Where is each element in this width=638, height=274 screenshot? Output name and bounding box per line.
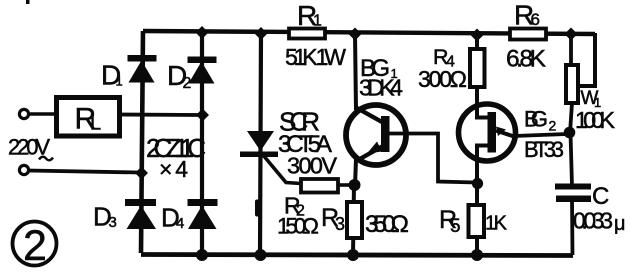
transistor BG1	[346, 105, 406, 165]
resistor R3	[347, 202, 362, 238]
wire bottom rail	[141, 255, 573, 256]
wire terminal to RL	[28, 112, 58, 116]
diode D3	[125, 199, 156, 229]
node dot W1 C emitter	[564, 127, 576, 139]
diode D1	[128, 55, 157, 83]
svg-text:4: 4	[176, 215, 184, 232]
node dot R2 R3 emitter	[349, 179, 361, 191]
svg-text:3: 3	[335, 214, 345, 234]
svg-text:2: 2	[549, 118, 557, 134]
wire BG2 emitter to node	[514, 134, 567, 136]
svg-text:300Ω: 300Ω	[418, 66, 467, 92]
wire BG1 emitter to node	[355, 159, 356, 186]
wire SCR column	[260, 33, 261, 255]
terminal input top	[19, 109, 28, 118]
node dot bottom D4	[196, 249, 208, 261]
wire top rail	[143, 31, 595, 34]
wire BG2 base1 to R5	[475, 160, 479, 255]
wire BG1 collector	[355, 34, 356, 110]
resistor R1	[289, 29, 325, 39]
node dot bottom SCR	[255, 249, 267, 261]
svg-text:μ: μ	[614, 213, 626, 235]
svg-text:350Ω: 350Ω	[365, 211, 409, 238]
svg-text:300V: 300V	[287, 153, 337, 179]
resistor R2	[301, 179, 338, 193]
wire R2 to node	[338, 183, 352, 187]
node dot bottom R3	[347, 249, 359, 261]
terminal input bottom	[19, 165, 28, 174]
svg-text:L: L	[90, 113, 101, 135]
wire capacitor branch lower	[570, 199, 574, 255]
svg-text:BT33: BT33	[524, 137, 564, 162]
figure number 2	[13, 222, 57, 271]
svg-text:51K 1W: 51K 1W	[285, 44, 346, 70]
svg-text:3: 3	[109, 214, 117, 231]
svg-text:6: 6	[531, 10, 540, 29]
wire capacitor branch upper	[571, 133, 573, 186]
svg-text:0.033: 0.033	[573, 208, 613, 234]
node dot top R4	[471, 29, 484, 42]
svg-text:100K: 100K	[575, 107, 615, 133]
svg-text:1: 1	[116, 74, 123, 89]
transistor BG2	[459, 103, 516, 161]
resistor R5	[469, 205, 485, 237]
thyristor SCR	[240, 131, 278, 157]
svg-text:2: 2	[23, 222, 47, 270]
wire W1 to node	[570, 103, 572, 133]
wire W1 branch upper	[569, 34, 573, 66]
node dot RL bridge	[196, 109, 209, 122]
wire R4 branch	[475, 35, 479, 105]
node dot top D2	[196, 26, 209, 39]
svg-text:1K: 1K	[485, 213, 508, 235]
wire SCR gate	[263, 155, 301, 184]
diode D4	[188, 199, 218, 229]
diode D2	[188, 57, 217, 84]
svg-text:150Ω: 150Ω	[277, 214, 319, 239]
capacitor C	[555, 184, 591, 203]
node dot bottom R5	[471, 249, 483, 261]
resistor RL	[57, 98, 120, 137]
svg-text:BG: BG	[524, 107, 548, 132]
svg-text:C: C	[592, 183, 609, 210]
wire column D2-D4	[200, 32, 204, 255]
resistor R4	[470, 49, 485, 87]
node dot top BG1	[349, 28, 362, 41]
wire R3 branch	[353, 185, 354, 255]
node dot base1 R5	[472, 178, 483, 189]
svg-text:2: 2	[183, 75, 192, 92]
label tilde	[39, 157, 53, 161]
node dot terminal bridge	[135, 167, 148, 180]
wire W1 wiper hook	[578, 33, 595, 86]
stray ink tick	[26, 0, 30, 4]
svg-text:1: 1	[313, 13, 322, 30]
node dot top SCR	[255, 27, 268, 40]
svg-text:6.8K: 6.8K	[506, 46, 547, 73]
wire left column D1-D3	[141, 31, 143, 253]
svg-text:3DK4: 3DK4	[359, 75, 403, 101]
svg-text:5: 5	[450, 216, 461, 237]
resistor R6	[510, 29, 546, 40]
wire terminal to bridge node	[28, 171, 139, 173]
node dot top W1	[565, 28, 578, 41]
wire RL to bridge node	[118, 113, 200, 117]
wire BG1 base to node A	[389, 134, 476, 183]
potentiometer W1	[566, 65, 578, 103]
